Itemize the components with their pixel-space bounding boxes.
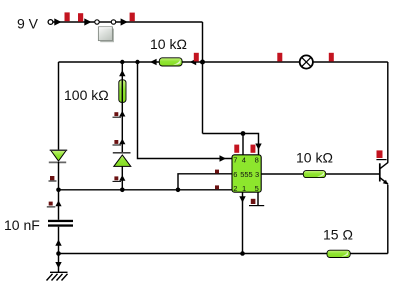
svg-text:10 kΩ: 10 kΩ xyxy=(150,36,187,52)
resistor 15 Ohm body xyxy=(327,250,350,257)
svg-text:9 V: 9 V xyxy=(17,16,39,32)
wire battery to switch xyxy=(53,21,96,23)
capacitor 10 nF xyxy=(48,220,73,227)
wire switch to corner xyxy=(116,21,203,23)
node junction pin7 branch xyxy=(135,60,139,64)
svg-text:555: 555 xyxy=(240,170,253,179)
wire 555 top feed: horizontal with branches to pin4 and pin8 xyxy=(203,134,259,155)
wire pin 5 stub xyxy=(257,192,259,205)
ground xyxy=(47,272,68,280)
wire rail y=190 to pin 2 xyxy=(59,189,233,191)
wire left vertical lower xyxy=(58,162,60,190)
probe maroon pin5 xyxy=(251,199,256,204)
svg-text:3: 3 xyxy=(255,170,259,179)
resistor 100 kOhm body xyxy=(119,80,126,103)
current arrow xyxy=(54,18,61,25)
probe maroon cap xyxy=(47,200,62,207)
wire below D2 xyxy=(121,166,123,190)
probe red 3 xyxy=(130,13,135,22)
current arrow down to ground xyxy=(55,262,61,268)
node junction pin4 xyxy=(241,131,246,136)
probe red transistor xyxy=(377,150,383,158)
svg-text:7: 7 xyxy=(233,156,237,165)
current arrow xyxy=(84,18,91,25)
probe maroon pin2 xyxy=(215,185,219,189)
wire collector vertical xyxy=(387,62,389,163)
node junction ground rail xyxy=(56,251,61,256)
current arrow right of R 10k xyxy=(190,59,196,65)
wire vertical from top corner down to 555 feed xyxy=(202,22,204,134)
node junction supply xyxy=(200,60,205,65)
lamp L1 xyxy=(300,55,313,68)
svg-text:10 nF: 10 nF xyxy=(4,217,40,233)
svg-text:2: 2 xyxy=(233,184,237,193)
probe maroon+arrow y113 xyxy=(113,111,126,117)
wire bottom rail y=253.5 xyxy=(59,253,388,255)
battery terminal xyxy=(48,20,53,25)
probe maroon+arrow y178 xyxy=(113,175,126,181)
current arrow xyxy=(121,18,128,25)
current arrow pin1 xyxy=(239,196,245,202)
svg-text:4: 4 xyxy=(242,156,246,165)
wire 100k branch xyxy=(121,62,123,152)
probe maroon+arrow y141 xyxy=(113,139,126,145)
current arrow into pin 7 xyxy=(220,155,227,162)
transistor Q1 xyxy=(380,162,388,184)
diode D2 (cathode up) xyxy=(113,153,131,167)
node junction diode branch xyxy=(120,188,125,193)
probe red left of lamp xyxy=(277,53,282,62)
svg-text:15 Ω: 15 Ω xyxy=(323,227,353,243)
resistor 10 kOhm (base) body xyxy=(303,171,325,178)
node junction cap xyxy=(56,188,61,193)
svg-text:6: 6 xyxy=(233,170,237,179)
IC 555 U1 xyxy=(232,155,261,193)
wire pin6 tie xyxy=(178,174,232,190)
node junction pin1/rail xyxy=(240,251,245,256)
switch SW1 contact xyxy=(99,21,113,23)
wire to pin 4 xyxy=(242,134,244,155)
resistor 10 kOhm body xyxy=(159,58,182,66)
probe maroon left diode xyxy=(50,176,54,180)
wire horizontal rail y=62 xyxy=(59,61,388,63)
probe red above pin8 xyxy=(251,145,256,153)
probe maroon pin6 xyxy=(215,170,219,174)
probe red right of 10k xyxy=(194,53,199,62)
current arrow left of R 10k xyxy=(150,59,157,65)
wire pin 3 to transistor base xyxy=(261,173,380,175)
wire left vertical upper xyxy=(58,62,60,150)
current arrow into pin 8 xyxy=(255,144,261,150)
svg-text:8: 8 xyxy=(255,156,259,165)
probe red 2 xyxy=(78,13,83,21)
svg-text:1: 1 xyxy=(242,184,246,193)
diode D1 (left, cathode down) xyxy=(49,150,67,162)
wire cap bottom segment xyxy=(58,227,60,273)
wire cap top segment xyxy=(58,190,60,220)
wire emitter vertical xyxy=(387,185,389,254)
100k branch: current arrow up xyxy=(119,70,125,76)
svg-text:5: 5 xyxy=(255,184,259,193)
svg-text:10 kΩ: 10 kΩ xyxy=(296,150,333,166)
probe red 1 xyxy=(65,12,70,21)
wire pin7 feed: down from node then right into pin 7 xyxy=(138,62,233,159)
probe red above pin4 xyxy=(234,145,239,153)
svg-text:100 kΩ: 100 kΩ xyxy=(64,87,109,103)
current arrow up below cap xyxy=(55,240,61,246)
switch push button xyxy=(100,29,114,43)
probe red right of lamp xyxy=(329,53,334,62)
wire pin 1 down xyxy=(242,192,244,253)
node junction 100k branch xyxy=(120,60,124,64)
node junction pin6 tie xyxy=(176,188,181,193)
